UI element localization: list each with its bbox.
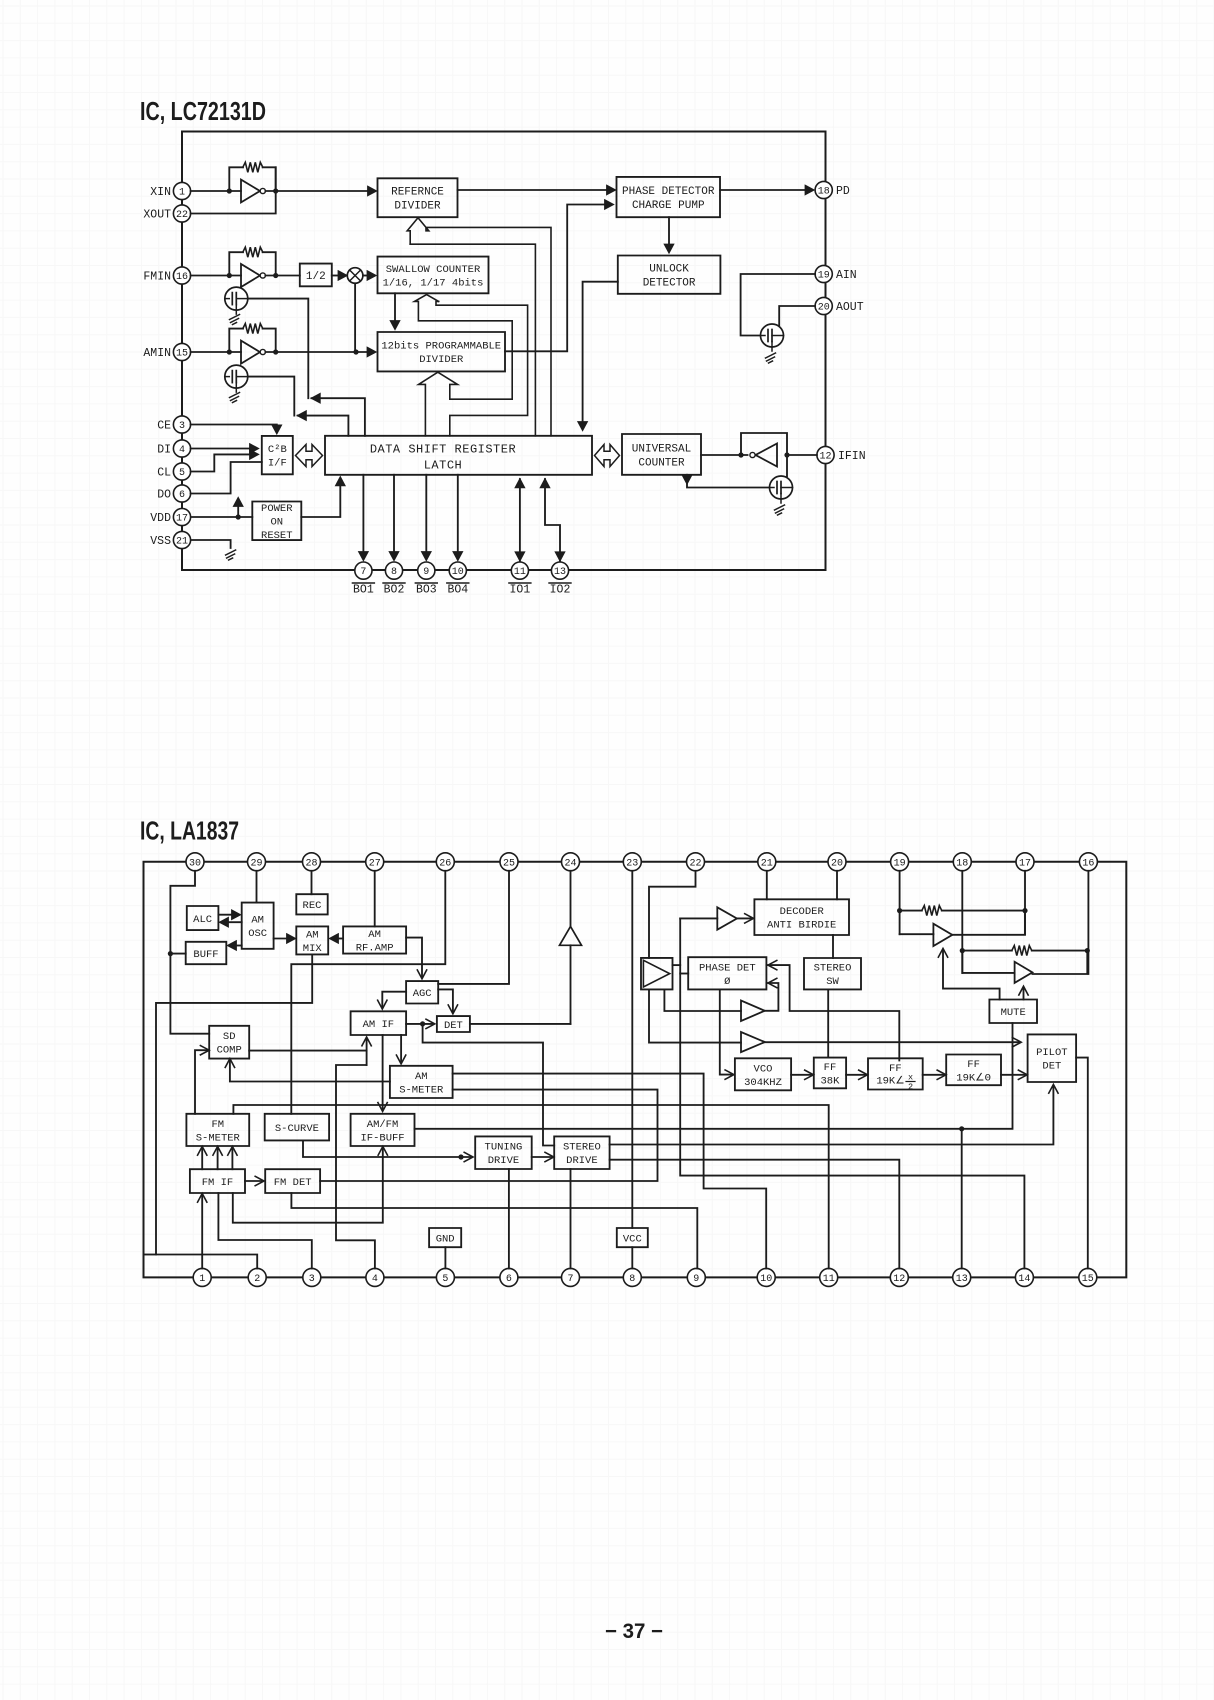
svg-text:21: 21 [761, 858, 773, 869]
svg-text:1/2: 1/2 [306, 271, 326, 283]
svg-text:13: 13 [554, 567, 566, 578]
svg-text:RESET: RESET [261, 530, 293, 542]
svg-text:XIN: XIN [150, 186, 171, 199]
svg-text:SW: SW [826, 976, 839, 988]
svg-text:20: 20 [818, 303, 830, 314]
svg-text:MIX: MIX [303, 943, 323, 955]
svg-text:FF: FF [967, 1059, 980, 1071]
svg-text:POWER: POWER [261, 503, 293, 515]
svg-text:VCC: VCC [623, 1233, 642, 1245]
svg-text:ON: ON [270, 517, 283, 529]
svg-text:ALC: ALC [193, 914, 212, 926]
svg-text:BO2: BO2 [384, 584, 405, 597]
svg-text:12: 12 [893, 1274, 905, 1285]
svg-text:FF: FF [889, 1063, 902, 1075]
svg-text:− 37 −: − 37 − [605, 1620, 663, 1643]
svg-text:DO: DO [157, 489, 171, 502]
svg-text:19: 19 [894, 858, 906, 869]
svg-text:IFIN: IFIN [838, 450, 866, 463]
svg-text:SWALLOW COUNTER: SWALLOW COUNTER [386, 264, 481, 276]
svg-text:C²B: C²B [268, 444, 287, 456]
svg-text:AOUT: AOUT [836, 301, 864, 314]
svg-text:11: 11 [823, 1274, 835, 1285]
svg-text:FM IF: FM IF [202, 1177, 234, 1189]
svg-text:25: 25 [503, 858, 515, 869]
svg-text:1: 1 [179, 188, 185, 199]
svg-text:LATCH: LATCH [424, 459, 463, 473]
svg-text:2: 2 [908, 1082, 913, 1092]
svg-text:17: 17 [1019, 858, 1031, 869]
svg-text:5: 5 [179, 468, 185, 479]
svg-text:IO2: IO2 [550, 584, 571, 597]
svg-text:IC, LA1837: IC, LA1837 [140, 818, 239, 846]
svg-text:DIVIDER: DIVIDER [419, 354, 464, 366]
svg-text:Ø: Ø [724, 976, 730, 988]
svg-text:DRIVE: DRIVE [566, 1155, 598, 1167]
svg-text:17: 17 [176, 514, 188, 525]
svg-text:DET: DET [1042, 1061, 1061, 1073]
svg-text:13: 13 [956, 1274, 968, 1285]
svg-text:DETECTOR: DETECTOR [643, 278, 696, 290]
svg-text:COUNTER: COUNTER [638, 457, 685, 469]
svg-text:UNLOCK: UNLOCK [649, 264, 689, 276]
svg-text:9: 9 [693, 1274, 699, 1285]
svg-text:DIVIDER: DIVIDER [394, 201, 441, 213]
svg-text:S-METER: S-METER [399, 1084, 444, 1096]
svg-text:8: 8 [629, 1274, 635, 1285]
svg-text:20: 20 [831, 858, 843, 869]
svg-text:18: 18 [956, 858, 968, 869]
svg-text:XOUT: XOUT [143, 209, 171, 222]
svg-text:MUTE: MUTE [1001, 1007, 1026, 1019]
svg-text:UNIVERSAL: UNIVERSAL [632, 443, 691, 455]
svg-text:22: 22 [176, 210, 188, 221]
svg-text:7: 7 [360, 567, 366, 578]
svg-text:16: 16 [1082, 858, 1094, 869]
svg-text:TUNING: TUNING [485, 1142, 523, 1154]
svg-text:I/F: I/F [268, 458, 287, 470]
svg-text:16: 16 [176, 272, 188, 283]
svg-text:FM: FM [211, 1119, 224, 1131]
svg-text:1: 1 [199, 1274, 205, 1285]
svg-text:19K∠Θ: 19K∠Θ [956, 1071, 991, 1084]
svg-text:IC, LC72131D: IC, LC72131D [140, 98, 266, 126]
svg-text:23: 23 [626, 858, 638, 869]
svg-text:AM: AM [415, 1071, 428, 1083]
svg-text:22: 22 [689, 858, 701, 869]
svg-text:PD: PD [836, 185, 850, 198]
svg-text:4: 4 [179, 445, 185, 456]
svg-text:REC: REC [303, 900, 322, 912]
svg-text:STEREO: STEREO [563, 1142, 601, 1154]
svg-text:VSS: VSS [150, 535, 171, 548]
svg-text:AM IF: AM IF [363, 1019, 395, 1031]
svg-text:2: 2 [254, 1274, 260, 1285]
svg-text:27: 27 [369, 858, 381, 869]
svg-text:12bits PROGRAMMABLE: 12bits PROGRAMMABLE [381, 341, 501, 353]
svg-text:3: 3 [309, 1274, 315, 1285]
svg-text:AM/FM: AM/FM [367, 1119, 399, 1131]
svg-text:11: 11 [514, 567, 526, 578]
svg-text:10: 10 [760, 1274, 772, 1285]
svg-text:GND: GND [436, 1233, 455, 1245]
svg-text:COMP: COMP [217, 1045, 242, 1057]
svg-text:VCO: VCO [754, 1063, 773, 1075]
svg-text:CHARGE PUMP: CHARGE PUMP [632, 200, 705, 212]
svg-text:BO4: BO4 [447, 584, 468, 597]
svg-text:7: 7 [567, 1274, 573, 1285]
svg-text:19K∠: 19K∠ [876, 1075, 904, 1088]
svg-text:PHASE DET: PHASE DET [699, 962, 756, 974]
svg-text:DET: DET [444, 1020, 463, 1032]
svg-text:1/16, 1/17 4bits: 1/16, 1/17 4bits [383, 277, 484, 289]
svg-text:IO1: IO1 [510, 584, 531, 597]
svg-text:REFERNCE: REFERNCE [391, 187, 444, 199]
svg-text:CE: CE [157, 420, 171, 433]
svg-text:15: 15 [1082, 1274, 1094, 1285]
svg-text:30: 30 [189, 858, 201, 869]
svg-text:FM DET: FM DET [274, 1177, 312, 1189]
svg-text:3: 3 [179, 421, 185, 432]
svg-text:AM: AM [368, 929, 381, 941]
svg-text:FF: FF [824, 1062, 837, 1074]
svg-text:S-METER: S-METER [196, 1132, 241, 1144]
svg-text:DI: DI [157, 444, 171, 457]
svg-text:9: 9 [423, 567, 429, 578]
svg-text:6: 6 [506, 1274, 512, 1285]
svg-text:BUFF: BUFF [193, 949, 218, 961]
svg-text:IF-BUFF: IF-BUFF [360, 1132, 404, 1144]
svg-text:DECODER: DECODER [780, 906, 825, 918]
svg-text:18: 18 [818, 187, 830, 198]
svg-text:OSC: OSC [248, 928, 267, 940]
svg-text:28: 28 [305, 858, 317, 869]
svg-text:38K: 38K [820, 1075, 840, 1087]
svg-text:AM: AM [306, 929, 319, 941]
svg-text:19: 19 [818, 271, 830, 282]
svg-text:26: 26 [439, 858, 451, 869]
svg-text:21: 21 [176, 537, 188, 548]
svg-text:DRIVE: DRIVE [488, 1155, 520, 1167]
svg-text:AMIN: AMIN [143, 347, 171, 360]
svg-text:4: 4 [372, 1274, 378, 1285]
svg-text:SD: SD [223, 1031, 236, 1043]
svg-text:AM: AM [251, 915, 264, 927]
svg-text:15: 15 [176, 349, 188, 360]
svg-text:BO1: BO1 [353, 584, 374, 597]
svg-text:BO3: BO3 [416, 584, 437, 597]
svg-text:PILOT: PILOT [1036, 1047, 1068, 1059]
svg-text:6: 6 [179, 490, 185, 501]
svg-text:DATA SHIFT REGISTER: DATA SHIFT REGISTER [370, 443, 516, 457]
svg-text:304KHZ: 304KHZ [744, 1077, 782, 1089]
svg-text:CL: CL [157, 467, 171, 480]
svg-text:14: 14 [1018, 1274, 1030, 1285]
svg-text:AGC: AGC [413, 988, 432, 1000]
svg-text:STEREO: STEREO [814, 963, 852, 975]
svg-text:10: 10 [452, 567, 464, 578]
svg-text:PHASE DETECTOR: PHASE DETECTOR [622, 186, 715, 198]
svg-text:AIN: AIN [836, 269, 857, 282]
svg-text:5: 5 [442, 1274, 448, 1285]
svg-text:8: 8 [391, 567, 397, 578]
svg-text:VDD: VDD [150, 512, 171, 525]
svg-text:RF.AMP: RF.AMP [356, 943, 394, 955]
svg-text:ANTI BIRDIE: ANTI BIRDIE [767, 920, 836, 932]
svg-text:29: 29 [250, 858, 262, 869]
svg-text:24: 24 [564, 858, 576, 869]
svg-text:S-CURVE: S-CURVE [275, 1123, 319, 1135]
svg-text:FMIN: FMIN [143, 271, 171, 284]
svg-text:12: 12 [819, 452, 831, 463]
